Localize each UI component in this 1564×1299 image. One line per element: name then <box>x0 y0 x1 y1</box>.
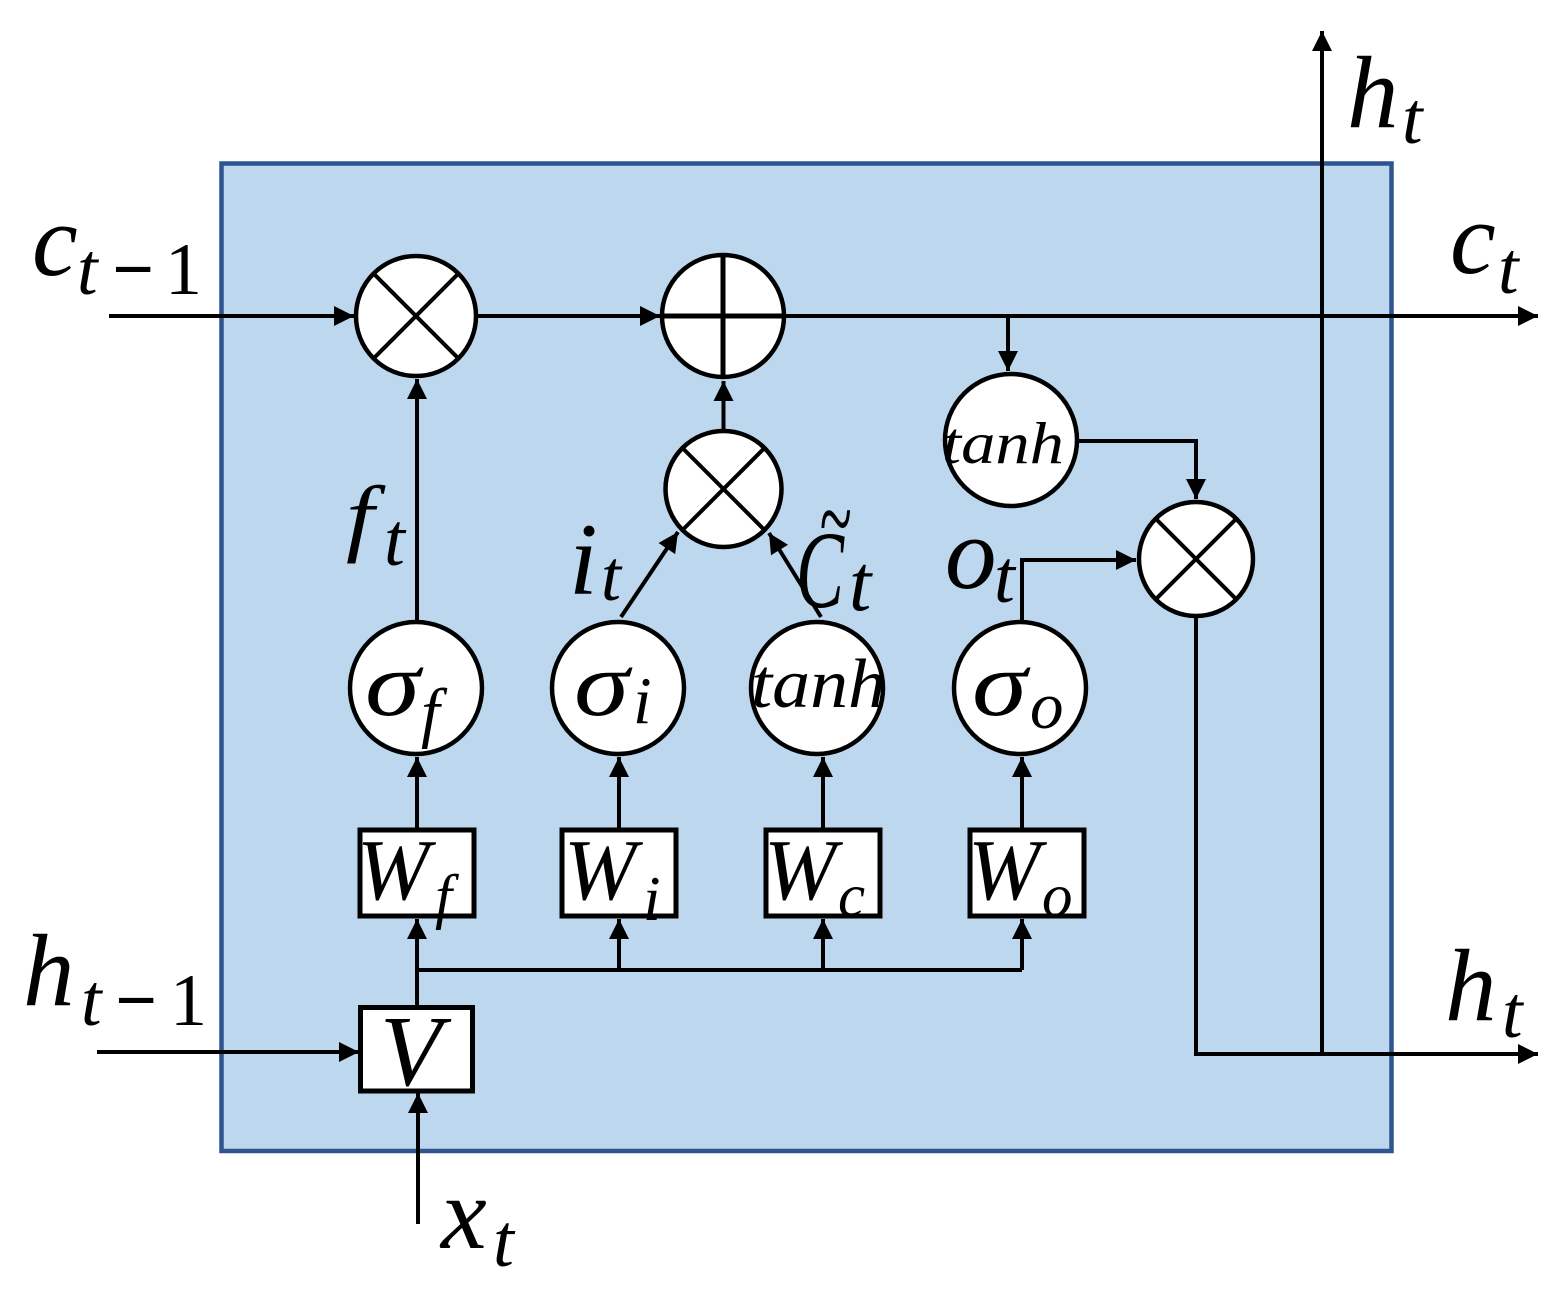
svg-text:o: o <box>1042 863 1073 930</box>
LSTM cell body (blue rounded rect) <box>222 164 1392 1152</box>
svg-text:t−1: t−1 <box>77 229 202 311</box>
sigma_f node <box>350 622 482 754</box>
svg-text:h: h <box>1347 36 1399 150</box>
wire branch up to W_o <box>1020 919 1024 970</box>
svg-text:~: ~ <box>819 460 851 577</box>
svg-text:σ: σ <box>574 633 633 735</box>
svg-text:t−1: t−1 <box>81 960 207 1042</box>
wire C~_t diagonal tanh to multiply2 <box>769 533 821 617</box>
svg-text:tanh: tanh <box>751 646 886 723</box>
wire i_t diagonal sigma_i to multiply2 <box>621 532 678 617</box>
wire branch up to W_c <box>821 919 825 970</box>
wire h_{t-1} into V <box>97 1050 359 1054</box>
box W_o <box>970 830 1084 916</box>
wire multiply to plus node <box>477 314 660 318</box>
svg-text:t: t <box>384 499 407 582</box>
svg-text:o: o <box>945 497 997 611</box>
plus glyph in plus node <box>662 256 784 376</box>
wire c-line branch down into tanh node <box>1006 316 1010 371</box>
svg-text:c: c <box>32 184 78 298</box>
svg-text:c: c <box>1450 182 1496 296</box>
wire V up to W_f <box>415 919 419 1005</box>
svg-text:W: W <box>968 821 1048 918</box>
svg-text:σ: σ <box>972 633 1031 735</box>
svg-text:i: i <box>633 664 652 738</box>
svg-text:W: W <box>764 821 844 918</box>
svg-text:t: t <box>601 536 623 616</box>
X glyph in multiply node 3 <box>1156 519 1237 600</box>
svg-text:W: W <box>357 821 437 918</box>
svg-text:t: t <box>1498 228 1521 310</box>
svg-text:t: t <box>493 1200 516 1283</box>
wire tanh node right and down into multiply3 <box>1076 441 1196 499</box>
svg-text:i: i <box>643 864 661 934</box>
box W_c <box>766 830 880 916</box>
wire W_f to sigma_f <box>415 757 419 828</box>
X glyph in multiply node 1 <box>374 274 459 359</box>
svg-text:t: t <box>994 536 1017 619</box>
wire x_t up into V <box>416 1093 420 1224</box>
X glyph in multiply node 2 <box>683 448 765 530</box>
svg-text:W: W <box>564 821 644 918</box>
wire f_t : sigma_f up to multiply <box>415 379 419 620</box>
multiply node 1 (forget gating) <box>356 256 476 376</box>
box W_i <box>562 830 676 916</box>
svg-text:V: V <box>380 995 452 1107</box>
tanh output node <box>945 374 1077 506</box>
wire branch up to W_i <box>617 919 621 970</box>
wire horizontal branch from V line <box>417 968 1022 972</box>
svg-text:σ: σ <box>365 633 424 735</box>
wire c_{t-1} input into multiply node <box>109 314 354 318</box>
wire h_t vertical output up <box>1320 31 1324 1054</box>
tanh candidate node <box>751 622 883 754</box>
multiply node 3 (output gating) <box>1139 502 1253 616</box>
wire multiply3 down and right to h_t output <box>1196 618 1538 1054</box>
svg-text:t: t <box>1502 972 1525 1054</box>
svg-text:t: t <box>1402 78 1425 160</box>
wire W_i to sigma_i <box>617 757 621 828</box>
svg-text:o: o <box>1030 669 1064 743</box>
svg-text:c: c <box>838 863 865 930</box>
wire o_t : sigma_o up and right into multiply3 <box>1022 560 1136 620</box>
wire W_o to sigma_o <box>1020 757 1024 828</box>
plus node <box>662 255 784 377</box>
wire plus node to c_t output <box>784 314 1538 318</box>
svg-text:t: t <box>849 540 873 628</box>
svg-text:i: i <box>569 503 598 617</box>
svg-text:h: h <box>23 914 75 1028</box>
sigma_i node <box>552 622 684 754</box>
svg-text:h: h <box>1445 929 1497 1043</box>
svg-text:x: x <box>439 1157 487 1271</box>
multiply node 2 (input gating) <box>666 431 782 547</box>
sigma_o node <box>954 622 1086 754</box>
box V <box>361 1008 473 1092</box>
svg-text:tanh: tanh <box>942 410 1064 476</box>
box W_f <box>360 830 474 916</box>
wire W_c to tanh <box>821 757 825 828</box>
wire multiply2 up to plus <box>722 381 726 429</box>
